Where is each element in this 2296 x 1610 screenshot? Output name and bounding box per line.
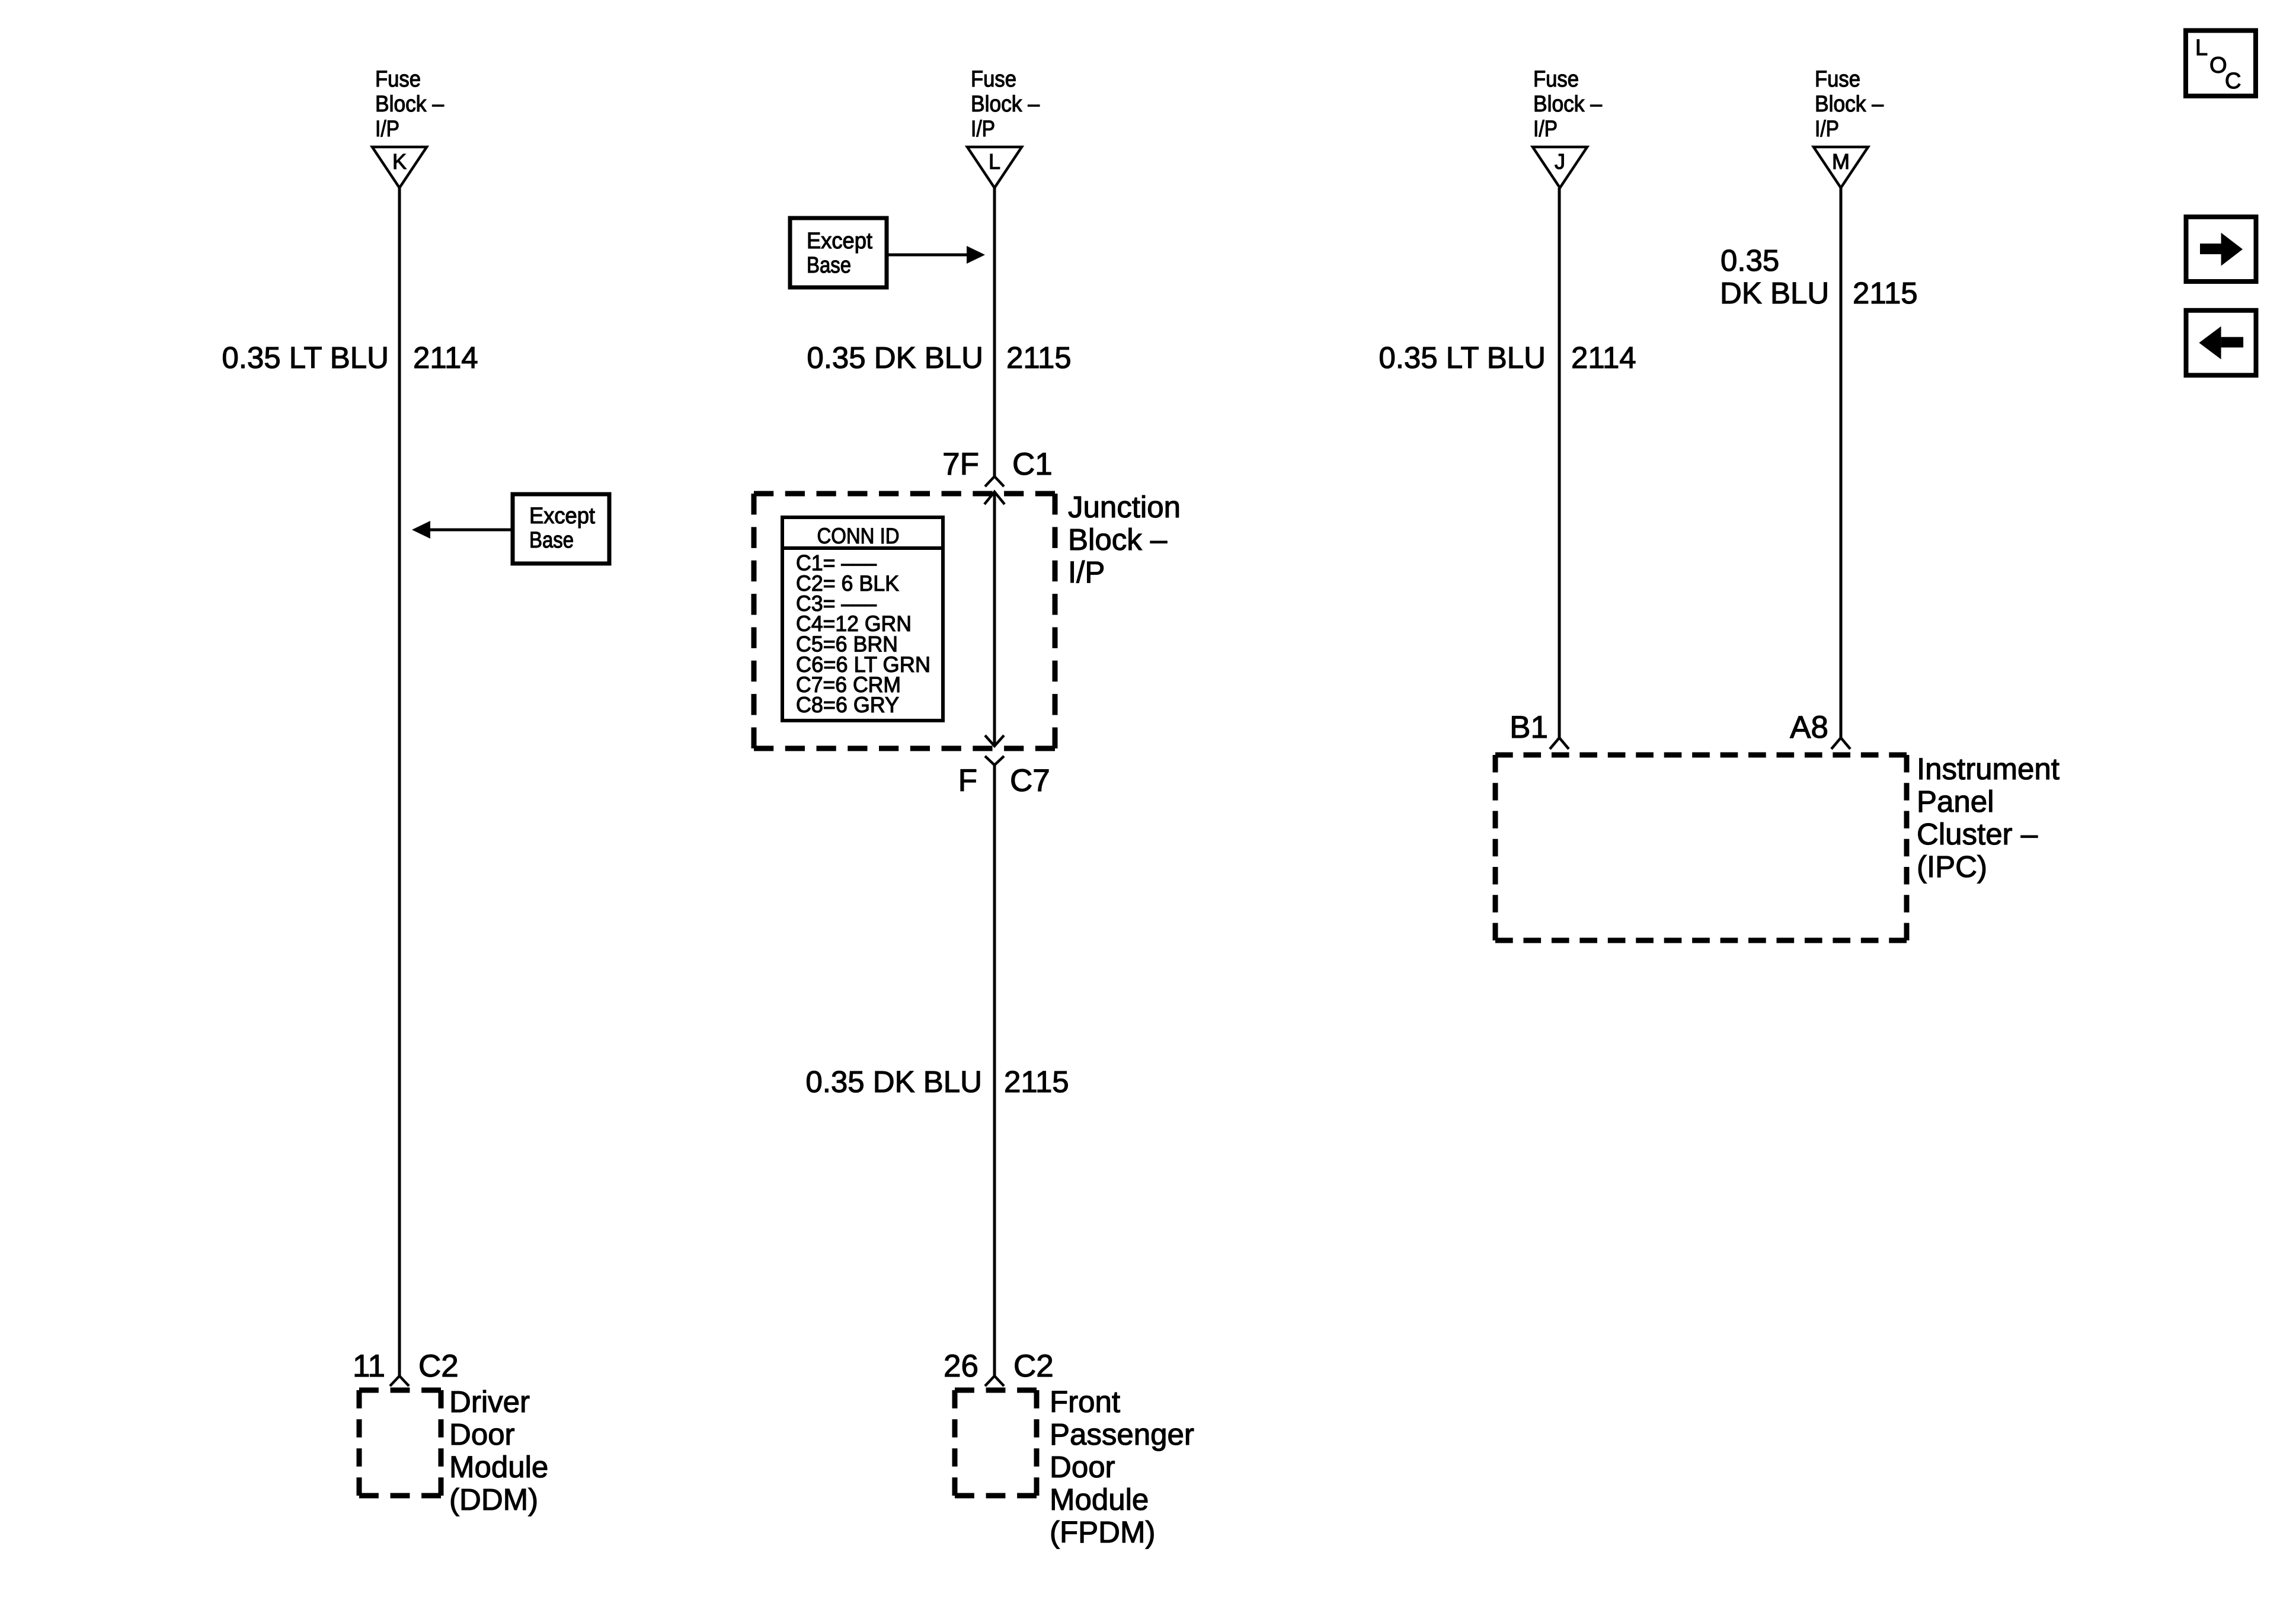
fuse block K label [375,67,445,142]
svg-text:C2: C2 [418,1349,459,1384]
connector symbol female half at C1 [985,476,1004,486]
except base callout box (column L) [790,218,887,287]
svg-text:Module: Module [1050,1483,1149,1516]
svg-text:Door: Door [449,1417,515,1451]
svg-text:DK BLU: DK BLU [1720,276,1829,310]
fuse block M triangle symbol [1814,147,1868,188]
svg-text:Block –: Block – [971,92,1040,117]
wire 2115 segment from junction block to FPDM [993,765,996,1376]
svg-text:L: L [989,149,1000,174]
svg-text:L: L [2195,36,2208,60]
junction block name label [1068,490,1181,589]
svg-text:Instrument: Instrument [1917,752,2060,786]
svg-text:Fuse: Fuse [1815,67,1860,92]
fuse block J triangle symbol [1533,147,1587,188]
pin 7F / connector C1 labels at junction block [942,447,1053,482]
except base arrow (pointing left) [412,521,513,539]
svg-text:F: F [958,763,977,798]
svg-text:B1: B1 [1510,710,1548,745]
svg-text:Except: Except [807,229,872,254]
wire segment inside junction block [993,492,996,746]
svg-text:Fuse: Fuse [971,67,1016,92]
fuse block L triangle symbol [967,147,1022,188]
except base arrow (pointing right at wire) [887,246,985,264]
wire 2114 segment from fuse block J to IPC [1558,188,1561,738]
svg-text:2115: 2115 [1006,341,1072,375]
svg-text:Fuse: Fuse [1533,67,1579,92]
pin A8 label at IPC [1790,710,1828,745]
svg-text:Block –: Block – [1068,523,1168,556]
svg-text:(IPC): (IPC) [1917,850,1987,884]
svg-text:I/P: I/P [971,117,995,142]
svg-text:Except: Except [529,504,595,529]
front passenger door module FPDM dashed box [955,1390,1037,1496]
fuse block K triangle symbol [372,147,427,188]
svg-text:A8: A8 [1790,710,1828,745]
wire 2114 segment from fuse block K to DDM [398,188,401,1376]
svg-text:0.35 LT BLU: 0.35 LT BLU [1379,341,1546,375]
instrument panel cluster IPC dashed box [1495,755,1907,940]
svg-text:Block –: Block – [1533,92,1603,117]
svg-text:2114: 2114 [1571,341,1636,375]
svg-text:M: M [1832,149,1850,174]
junction block I/P dashed box [754,494,1055,748]
driver door module DDM dashed box [359,1390,441,1496]
LOC legend box [2186,31,2256,97]
pin 11 / connector C2 labels at DDM [353,1349,459,1384]
fuse block L label [971,67,1040,142]
svg-text:0.35: 0.35 [1721,244,1779,277]
svg-text:11: 11 [353,1349,385,1384]
svg-text:Junction: Junction [1068,490,1181,524]
pin 26 / connector C2 labels at FPDM [944,1349,1054,1384]
svg-text:Base: Base [529,528,574,553]
svg-text:I/P: I/P [375,117,399,142]
except base callout box (left) [513,494,609,564]
svg-text:C7: C7 [1010,763,1050,798]
FPDM name label [1050,1385,1194,1549]
svg-text:Door: Door [1050,1450,1115,1484]
svg-text:C2: C2 [1013,1349,1054,1384]
connector chevron at IPC pin B1 [1550,738,1569,749]
svg-text:I/P: I/P [1068,555,1105,589]
left arrow navigation box [2186,311,2256,376]
svg-text:26: 26 [944,1349,978,1384]
wire 2115 segment from fuse block L to junction block [993,188,996,476]
svg-text:(DDM): (DDM) [449,1483,538,1516]
svg-text:(FPDM): (FPDM) [1050,1515,1155,1549]
svg-text:CONN ID: CONN ID [817,524,900,548]
connector symbol male arrow at C7 (pointing down) [985,735,1004,746]
connector chevron at FPDM pin 26 [985,1376,1004,1386]
svg-text:Cluster –: Cluster – [1917,817,2038,851]
connector chevron at DDM pin 11 [390,1376,409,1386]
wire value label 0.35 DK BLU 2115 (L column upper) [807,341,1071,375]
svg-text:C: C [2225,69,2241,94]
svg-text:Base: Base [807,253,851,278]
svg-text:Block –: Block – [1815,92,1884,117]
connector symbol female half at C7 [985,756,1004,765]
fuse block J label [1533,67,1603,142]
IPC name label [1917,752,2060,884]
wire value label 0.35 LT BLU 2114 (K column) [222,341,478,375]
svg-text:Driver: Driver [449,1385,530,1419]
svg-text:0.35 DK BLU: 0.35 DK BLU [805,1065,982,1099]
svg-text:J: J [1555,149,1565,174]
svg-text:Front: Front [1050,1385,1120,1419]
CONN ID table rows [796,551,930,718]
connector chevron at IPC pin A8 [1831,738,1850,749]
svg-text:0.35 DK BLU: 0.35 DK BLU [807,341,983,375]
svg-text:I/P: I/P [1815,117,1839,142]
CONN ID table [782,517,943,721]
right arrow navigation box [2186,217,2256,281]
svg-text:2115: 2115 [1004,1065,1069,1099]
wire value label 0.35 LT BLU 2114 (J column) [1379,341,1636,375]
connector symbol male arrow at C1 [984,492,1005,504]
svg-text:I/P: I/P [1533,117,1558,142]
svg-text:2115: 2115 [1853,276,1918,310]
svg-text:Passenger: Passenger [1050,1417,1194,1451]
fuse block M label [1815,67,1884,142]
wire value label 0.35 DK BLU 2115 (M column) [1720,244,1918,310]
pin F / connector C7 labels below junction block [958,763,1050,798]
DDM name label [449,1385,548,1516]
svg-text:K: K [392,149,407,174]
svg-text:7F: 7F [942,447,979,482]
wire value label 0.35 DK BLU 2115 (L column lower) [805,1065,1069,1099]
svg-text:Panel: Panel [1917,785,1994,818]
svg-text:Fuse: Fuse [375,67,421,92]
svg-text:C8=6 GRY: C8=6 GRY [796,693,899,717]
pin B1 label at IPC [1510,710,1548,745]
wire 2115 segment from fuse block M to IPC [1840,188,1843,738]
svg-text:0.35 LT BLU: 0.35 LT BLU [222,341,389,375]
svg-text:C1: C1 [1012,447,1053,482]
svg-text:Block –: Block – [375,92,445,117]
svg-text:Module: Module [449,1450,548,1484]
svg-text:2114: 2114 [413,341,478,375]
